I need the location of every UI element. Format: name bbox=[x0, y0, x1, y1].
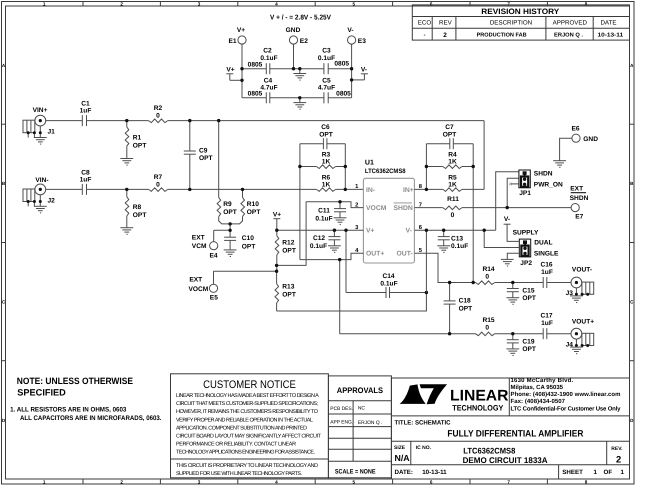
terminal E2 GND bbox=[286, 27, 309, 45]
wire R13 bottom to V- net bbox=[277, 293, 427, 312]
svg-text:0.1uF: 0.1uF bbox=[260, 55, 277, 62]
wire row B (R7 to R6) bbox=[168, 188, 317, 190]
svg-text:1K: 1K bbox=[322, 158, 331, 165]
resistor R14 bbox=[476, 266, 495, 285]
resistor R10 (from VIN- row) bbox=[230, 189, 260, 224]
capacitor C13 bbox=[438, 230, 469, 250]
wire pin6 V- row bbox=[414, 229, 495, 231]
svg-text:EXT: EXT bbox=[192, 234, 205, 241]
svg-text:C5: C5 bbox=[322, 78, 331, 85]
svg-text:1: 1 bbox=[621, 469, 625, 476]
svg-text:VCM: VCM bbox=[192, 243, 207, 250]
svg-text:OPT: OPT bbox=[242, 243, 256, 250]
wire C8 to R7 bbox=[87, 188, 149, 190]
ground below R8 bbox=[120, 228, 133, 235]
capacitor C12 bbox=[310, 230, 341, 250]
junction dots input section bbox=[125, 119, 244, 232]
zone numbers top bbox=[43, 1, 588, 6]
svg-text:2: 2 bbox=[120, 1, 123, 6]
svg-text:E4: E4 bbox=[210, 253, 218, 260]
capacitor C8 bbox=[80, 170, 92, 195]
svg-text:DEMO CIRCUIT 1833A: DEMO CIRCUIT 1833A bbox=[463, 456, 548, 465]
svg-text:R13: R13 bbox=[282, 283, 294, 290]
svg-text:CIRCUIT THAT MEETS CUSTOMER-SU: CIRCUIT THAT MEETS CUSTOMER-SUPPLIED SPE… bbox=[176, 401, 318, 407]
svg-text:1uF: 1uF bbox=[80, 177, 92, 184]
ground below C12 bbox=[328, 246, 341, 253]
svg-text:VIN+: VIN+ bbox=[33, 107, 48, 114]
svg-text:E7: E7 bbox=[575, 214, 583, 221]
svg-text:SUPPLY: SUPPLY bbox=[513, 230, 539, 237]
svg-text:R10: R10 bbox=[247, 201, 259, 208]
svg-text:1K: 1K bbox=[322, 181, 331, 188]
svg-text:SIZE: SIZE bbox=[394, 445, 406, 451]
svg-text:TECHNOLOGY: TECHNOLOGY bbox=[452, 404, 504, 413]
terminal E3 V- bbox=[347, 27, 366, 45]
svg-text:4: 4 bbox=[275, 1, 278, 6]
svg-text:PERFORMANCE OR RELIABILITY.: PERFORMANCE OR RELIABILITY. CONTACT LINE… bbox=[176, 442, 296, 448]
svg-text:C4: C4 bbox=[264, 78, 273, 85]
wire J1 to C1 bbox=[46, 120, 82, 122]
svg-text:OPT: OPT bbox=[319, 132, 333, 139]
wire V- to JP1 top pin bbox=[496, 172, 519, 230]
svg-text:4.7uF: 4.7uF bbox=[318, 85, 335, 92]
svg-text:JP2: JP2 bbox=[520, 260, 532, 267]
svg-text:0: 0 bbox=[485, 325, 489, 332]
address block bbox=[511, 377, 622, 412]
svg-text:1630 McCarthy Blvd.: 1630 McCarthy Blvd. bbox=[511, 377, 574, 384]
terminal E1 V+ bbox=[229, 27, 247, 45]
zone ticks top bbox=[83, 2, 547, 7]
svg-text:OPT: OPT bbox=[247, 209, 261, 216]
zone letters left/right bbox=[2, 63, 634, 423]
capacitor C3 bbox=[318, 48, 349, 75]
BNC connector J3 VOUT- bbox=[566, 267, 594, 303]
svg-text:SPECIFIED: SPECIFIED bbox=[17, 388, 66, 398]
wire V- to JP2 middle pin bbox=[484, 230, 519, 247]
svg-text:E5: E5 bbox=[210, 294, 218, 301]
svg-text:SHDN: SHDN bbox=[570, 195, 589, 202]
svg-text:APPLICATION. COMPONENT SUBSTI: APPLICATION. COMPONENT SUBSTITUTION AND … bbox=[176, 425, 307, 431]
svg-text:EXT: EXT bbox=[570, 185, 583, 192]
svg-text:5: 5 bbox=[353, 479, 356, 484]
svg-text:J3: J3 bbox=[566, 290, 574, 297]
wire feedback-right vertical (R4/C7 to OUT-) bbox=[472, 144, 474, 283]
ground below C10 bbox=[224, 250, 237, 257]
svg-text:0.1uF: 0.1uF bbox=[318, 55, 335, 62]
svg-text:V-: V- bbox=[406, 228, 412, 235]
svg-text:C13: C13 bbox=[451, 235, 463, 242]
svg-text:U1: U1 bbox=[365, 159, 374, 166]
svg-text:C7: C7 bbox=[445, 124, 454, 131]
wire pin7 SHDN row bbox=[414, 207, 442, 209]
svg-text:OF: OF bbox=[604, 469, 613, 476]
svg-text:4.7uF: 4.7uF bbox=[260, 85, 277, 92]
svg-text:E2: E2 bbox=[300, 38, 308, 45]
wire row D (OUT+ to R15) bbox=[340, 333, 476, 335]
svg-text:C1: C1 bbox=[81, 101, 90, 108]
svg-text:0: 0 bbox=[485, 274, 489, 281]
svg-text:NC: NC bbox=[358, 406, 366, 412]
zone ticks left/right bbox=[2, 124, 635, 361]
ground below C11 bbox=[334, 218, 347, 225]
svg-text:C19: C19 bbox=[522, 339, 534, 346]
customer notice footer paragraph bbox=[176, 463, 318, 477]
wire C17 to J4 bbox=[547, 333, 571, 335]
svg-text:IC NO.: IC NO. bbox=[416, 445, 432, 451]
svg-text:E1: E1 bbox=[229, 38, 237, 45]
svg-text:E6: E6 bbox=[571, 126, 579, 133]
svg-text:V + / - = 2.8V - 5.25V: V + / - = 2.8V - 5.25V bbox=[270, 14, 331, 22]
date row bbox=[395, 469, 625, 476]
svg-text:1uF: 1uF bbox=[80, 108, 92, 115]
capacitor C10 bbox=[224, 235, 255, 251]
wire J2 to C8 bbox=[46, 188, 82, 190]
wire C16 to J3 bbox=[547, 282, 571, 284]
svg-text:2: 2 bbox=[616, 453, 621, 464]
svg-text:OUT-: OUT- bbox=[397, 251, 413, 258]
svg-text:GND: GND bbox=[286, 27, 301, 34]
wire V+ row to pin3 bbox=[277, 229, 364, 231]
svg-text:0805: 0805 bbox=[334, 61, 349, 68]
title block frame bbox=[391, 378, 629, 479]
ic no cell bbox=[416, 445, 548, 465]
resistor R12 bbox=[275, 230, 296, 271]
svg-text:LINEAR: LINEAR bbox=[450, 387, 509, 404]
wire V- vertical to C14 right bbox=[425, 230, 427, 292]
customer notice paragraph bbox=[176, 393, 322, 456]
svg-text:Fax: (408)434-0507: Fax: (408)434-0507 bbox=[511, 398, 566, 405]
svg-text:R15: R15 bbox=[482, 317, 494, 324]
V- rail tap at supply bbox=[352, 67, 368, 80]
svg-text:VOCM: VOCM bbox=[189, 286, 209, 293]
svg-text:2: 2 bbox=[120, 479, 123, 484]
svg-text:C9: C9 bbox=[199, 148, 208, 155]
svg-text:C8: C8 bbox=[81, 170, 90, 177]
svg-text:R9: R9 bbox=[223, 201, 232, 208]
svg-text:0: 0 bbox=[156, 181, 160, 188]
jumper JP1 bbox=[519, 170, 563, 197]
approvals rows bbox=[330, 406, 382, 426]
ground at 4.7uF row bbox=[293, 98, 306, 109]
wire R15 to C17 bbox=[495, 333, 544, 335]
svg-text:LTC6362CMS8: LTC6362CMS8 bbox=[463, 447, 515, 456]
svg-text:R1: R1 bbox=[133, 135, 142, 142]
svg-text:C11: C11 bbox=[318, 208, 330, 215]
svg-text:OUT+: OUT+ bbox=[366, 251, 384, 258]
svg-text:REVISION HISTORY: REVISION HISTORY bbox=[481, 7, 560, 16]
svg-text:C14: C14 bbox=[382, 273, 394, 280]
svg-text:LTC6362CMS8: LTC6362CMS8 bbox=[365, 168, 406, 175]
svg-text:1: 1 bbox=[43, 479, 46, 484]
svg-text:7: 7 bbox=[507, 479, 510, 484]
wire IN- node vertical bbox=[344, 144, 346, 190]
svg-text:C12: C12 bbox=[313, 235, 325, 242]
svg-text:NOTE: UNLESS OTHERWISE: NOTE: UNLESS OTHERWISE bbox=[17, 376, 133, 386]
wire 4.7uF bypass row bbox=[242, 97, 352, 99]
svg-text:Milpitas, CA 95035: Milpitas, CA 95035 bbox=[511, 384, 564, 391]
resistor R1 bbox=[125, 121, 146, 159]
svg-text:0: 0 bbox=[451, 212, 455, 219]
svg-text:1K: 1K bbox=[448, 158, 457, 165]
revision table column headings bbox=[418, 20, 617, 27]
svg-text:C16: C16 bbox=[540, 261, 552, 268]
wire IN+ node vertical bbox=[425, 144, 427, 190]
svg-text:V-: V- bbox=[361, 67, 367, 74]
resistor R15 bbox=[476, 317, 495, 336]
svg-text:1uF: 1uF bbox=[541, 269, 553, 276]
svg-text:VIN-: VIN- bbox=[35, 177, 48, 184]
V+ rail tap at supply bbox=[226, 67, 242, 81]
svg-text:VOUT+: VOUT+ bbox=[572, 318, 594, 325]
svg-text:1: 1 bbox=[594, 469, 598, 476]
capacitor C16 bbox=[540, 261, 552, 288]
svg-text:C15: C15 bbox=[522, 287, 534, 294]
svg-text:V+: V+ bbox=[273, 211, 281, 218]
svg-text:V-: V- bbox=[504, 216, 510, 223]
svg-text:VOCM: VOCM bbox=[366, 205, 387, 212]
svg-text:C6: C6 bbox=[321, 124, 330, 131]
size cell bbox=[394, 445, 410, 463]
wire row C (OUT- to R14) bbox=[450, 282, 476, 284]
svg-text:R7: R7 bbox=[154, 174, 163, 181]
svg-text:-: - bbox=[424, 32, 426, 38]
svg-text:ALL CAPACITORS ARE IN MICROFAR: ALL CAPACITORS ARE IN MICROFARADS, 0603. bbox=[20, 415, 162, 422]
resistor R6 bbox=[316, 175, 335, 192]
svg-text:E3: E3 bbox=[358, 38, 366, 45]
resistor R7 bbox=[149, 174, 168, 191]
resistor R3 bbox=[300, 152, 345, 169]
junction dots right section bbox=[425, 206, 515, 335]
svg-text:1K: 1K bbox=[448, 181, 457, 188]
svg-text:VOUT-: VOUT- bbox=[572, 267, 592, 274]
wire pin5 OUT- jog to row C bbox=[414, 253, 449, 282]
svg-text:0: 0 bbox=[156, 112, 160, 119]
svg-text:PRODUCTION FAB: PRODUCTION FAB bbox=[477, 33, 527, 39]
svg-text:C17: C17 bbox=[540, 312, 552, 319]
svg-text:R14: R14 bbox=[482, 266, 494, 273]
svg-text:GND: GND bbox=[583, 136, 598, 143]
svg-text:C2: C2 bbox=[263, 48, 272, 55]
svg-text:THIS CIRCUIT IS PROPRIETARY TO: THIS CIRCUIT IS PROPRIETARY TO LINEAR TE… bbox=[176, 463, 318, 469]
zone ticks bottom bbox=[83, 479, 547, 484]
svg-text:APPROVALS: APPROVALS bbox=[337, 386, 384, 395]
svg-text:V+: V+ bbox=[226, 67, 234, 74]
svg-text:OPT: OPT bbox=[133, 212, 147, 219]
wire E3 vertical bbox=[351, 44, 353, 98]
resistor R13 bbox=[275, 271, 296, 311]
svg-text:IN+: IN+ bbox=[403, 187, 414, 194]
svg-text:DUAL: DUAL bbox=[534, 240, 552, 247]
svg-text:1: 1 bbox=[43, 1, 46, 6]
capacitor C4 bbox=[248, 78, 278, 104]
svg-text:LINEAR TECHNOLOGY HAS MADE A B: LINEAR TECHNOLOGY HAS MADE A BEST EFFORT… bbox=[176, 393, 319, 399]
svg-text:IN-: IN- bbox=[366, 187, 375, 194]
wire R14 to C16 bbox=[495, 282, 544, 284]
capacitor C1 bbox=[80, 101, 92, 127]
svg-text:OPT: OPT bbox=[522, 346, 536, 353]
capacitor C17 bbox=[540, 312, 552, 339]
svg-text:Phone: (408)432-1900 www.linea: Phone: (408)432-1900 www.linear.com bbox=[511, 391, 621, 398]
notes heading bbox=[17, 376, 133, 398]
svg-text:V-: V- bbox=[347, 27, 353, 34]
svg-text:10-13-11: 10-13-11 bbox=[598, 33, 624, 39]
svg-text:REV: REV bbox=[439, 20, 453, 27]
wire JP1 PWR_ON stub bbox=[509, 183, 518, 186]
svg-text:OPT: OPT bbox=[282, 291, 296, 298]
wire V+ branch down to C14 bbox=[345, 230, 347, 292]
svg-text:HOWEVER, IT REMAINS THE CUSTOM: HOWEVER, IT REMAINS THE CUSTOMER'S RESPO… bbox=[176, 409, 318, 415]
BNC connector J4 VOUT+ bbox=[566, 318, 595, 353]
wire OUT+ long vertical to row D bbox=[339, 260, 341, 334]
svg-text:0805: 0805 bbox=[336, 91, 351, 98]
svg-text:CIRCUIT BOARD LAYOUT MAY SIGNI: CIRCUIT BOARD LAYOUT MAY SIGNIFICANTLY A… bbox=[176, 434, 322, 440]
svg-text:SCALE = NONE: SCALE = NONE bbox=[335, 469, 376, 476]
capacitor C15 bbox=[507, 283, 536, 302]
svg-text:OPT: OPT bbox=[459, 305, 473, 312]
wire VOCM vertical to divider bbox=[277, 202, 307, 266]
wire row A (R2 to IN+ network right vertical) bbox=[168, 120, 484, 122]
svg-text:ERJON Q .: ERJON Q . bbox=[358, 420, 382, 426]
V- rail tap at JP2 bbox=[504, 216, 519, 241]
approvals box bbox=[328, 376, 391, 478]
svg-text:0805: 0805 bbox=[248, 91, 263, 98]
notes body bbox=[10, 407, 162, 423]
svg-text:J4: J4 bbox=[566, 341, 574, 348]
svg-text:TITLE: SCHEMATIC: TITLE: SCHEMATIC bbox=[395, 420, 452, 427]
junction dots supply section bbox=[240, 67, 353, 100]
wire C1 to R2 bbox=[87, 120, 149, 122]
svg-text:TECHNOLOGY APPLICATIONS ENGINE: TECHNOLOGY APPLICATIONS ENGINEERING FOR … bbox=[176, 450, 315, 456]
svg-text:PCB DES.: PCB DES. bbox=[330, 406, 353, 412]
svg-text:SINGLE: SINGLE bbox=[534, 250, 559, 257]
terminal E4 EXT VCM bbox=[192, 230, 230, 259]
resistor R2 bbox=[149, 105, 168, 123]
BNC connector J2 VIN- bbox=[23, 177, 55, 213]
wire R6 to pin1 bbox=[336, 188, 364, 190]
ground below C13 bbox=[437, 246, 450, 253]
terminal E6 GND bbox=[553, 126, 598, 168]
resistor R9 (from VIN+ row) bbox=[217, 121, 237, 224]
svg-text:OPT: OPT bbox=[443, 132, 457, 139]
ground below C15 bbox=[506, 298, 519, 305]
svg-text:8: 8 bbox=[585, 479, 588, 484]
svg-text:R11: R11 bbox=[447, 196, 459, 203]
svg-text:5: 5 bbox=[353, 1, 356, 6]
svg-text:0.1uF: 0.1uF bbox=[315, 216, 332, 223]
svg-text:SHDN: SHDN bbox=[394, 205, 413, 212]
revision table row: production fab bbox=[424, 32, 623, 39]
junction dots amplifier section bbox=[275, 165, 475, 294]
capacitor C18 bbox=[444, 283, 473, 334]
revision history table bbox=[412, 5, 629, 40]
capacitor C9 bbox=[184, 121, 213, 190]
svg-text:R12: R12 bbox=[282, 240, 294, 247]
svg-text:OPT: OPT bbox=[522, 295, 536, 302]
svg-text:OPT: OPT bbox=[133, 143, 147, 150]
BNC connector J1 VIN+ bbox=[23, 107, 55, 144]
svg-text:SHEET: SHEET bbox=[562, 469, 583, 476]
V+ rail tap at R12 bbox=[273, 211, 281, 230]
svg-text:1uF: 1uF bbox=[541, 320, 553, 327]
terminal E7 EXT SHDN bbox=[570, 185, 589, 220]
wire pin2 VOCM jog bbox=[306, 202, 363, 208]
svg-text:R2: R2 bbox=[154, 105, 163, 112]
wire R11 to E7 bbox=[462, 207, 571, 209]
zone numbers bottom bbox=[43, 479, 588, 484]
svg-text:3: 3 bbox=[198, 479, 201, 484]
svg-text:JP1: JP1 bbox=[519, 190, 531, 197]
op-amp U1 LTC6362CMS8 bbox=[363, 159, 414, 263]
svg-text:0.1uF: 0.1uF bbox=[310, 243, 327, 250]
svg-text:V+: V+ bbox=[366, 228, 375, 235]
svg-text:8: 8 bbox=[585, 1, 588, 6]
svg-text:3: 3 bbox=[198, 1, 201, 6]
svg-text:C18: C18 bbox=[459, 298, 471, 305]
svg-text:DESCRIPTION: DESCRIPTION bbox=[490, 20, 532, 27]
svg-text:DATE: DATE bbox=[600, 20, 616, 27]
svg-text:SUPPLIED FOR USE WITH LINEAR T: SUPPLIED FOR USE WITH LINEAR TECHNOLOGY … bbox=[176, 471, 302, 477]
svg-text:DATE:: DATE: bbox=[395, 469, 413, 476]
svg-text:J2: J2 bbox=[48, 197, 56, 204]
wire E1 vertical bbox=[241, 44, 243, 98]
pin numbers U1 bbox=[355, 184, 359, 254]
svg-text:APPROVED: APPROVED bbox=[553, 20, 588, 27]
svg-text:N/A: N/A bbox=[395, 453, 411, 463]
capacitor C11 bbox=[315, 202, 346, 223]
svg-text:CUSTOMER NOTICE: CUSTOMER NOTICE bbox=[203, 379, 296, 391]
svg-text:APP ENG.: APP ENG. bbox=[330, 419, 353, 425]
svg-text:REV.: REV. bbox=[611, 446, 623, 452]
svg-text:OPT: OPT bbox=[199, 155, 213, 162]
ground at 0.1uF row bbox=[293, 69, 306, 80]
wire JP2 SINGLE pin to ground bbox=[501, 253, 519, 266]
svg-text:4: 4 bbox=[275, 479, 278, 484]
svg-text:1. ALL RESISTORS ARE IN OHMS,: 1. ALL RESISTORS ARE IN OHMS, 0603 bbox=[10, 407, 127, 414]
rev cell bbox=[611, 446, 623, 465]
jumper JP2 bbox=[513, 230, 559, 267]
svg-text:OPT: OPT bbox=[223, 209, 237, 216]
svg-text:0805: 0805 bbox=[248, 62, 263, 69]
wire feedback-left vertical (OUT+ to R3/C6) bbox=[299, 144, 301, 260]
ground below R1 bbox=[120, 159, 133, 166]
resistor R4 bbox=[426, 152, 473, 169]
svg-text:6: 6 bbox=[430, 1, 433, 6]
svg-text:10-13-11: 10-13-11 bbox=[422, 469, 447, 476]
svg-text:J1: J1 bbox=[48, 129, 56, 136]
svg-text:7: 7 bbox=[507, 1, 510, 6]
capacitor C6 bbox=[300, 124, 345, 149]
svg-text:R8: R8 bbox=[133, 204, 142, 211]
capacitor C19 bbox=[507, 334, 536, 353]
svg-text:V+: V+ bbox=[237, 27, 245, 34]
svg-text:0.1uF: 0.1uF bbox=[451, 243, 468, 250]
resistor R11 bbox=[443, 196, 462, 219]
svg-text:C3: C3 bbox=[322, 48, 331, 55]
capacitor C7 bbox=[426, 124, 473, 149]
resistor R5 bbox=[414, 175, 484, 192]
svg-text:VERIFY PROPER AND RELIABLE OPE: VERIFY PROPER AND RELIABLE OPERATION IN … bbox=[176, 417, 313, 423]
svg-text:6: 6 bbox=[430, 479, 433, 484]
svg-text:EXT: EXT bbox=[189, 276, 202, 283]
svg-text:FULLY DIFFERENTIAL AMPLIFIER: FULLY DIFFERENTIAL AMPLIFIER bbox=[447, 429, 583, 439]
svg-text:ERJON Q .: ERJON Q . bbox=[554, 33, 583, 39]
Linear Technology logo swoosh bbox=[400, 384, 448, 404]
svg-text:0.1uF: 0.1uF bbox=[380, 280, 397, 287]
capacitor C2 bbox=[248, 48, 278, 75]
capacitor C5 bbox=[318, 78, 351, 104]
svg-text:C10: C10 bbox=[242, 235, 254, 242]
svg-text:OPT: OPT bbox=[282, 248, 296, 255]
